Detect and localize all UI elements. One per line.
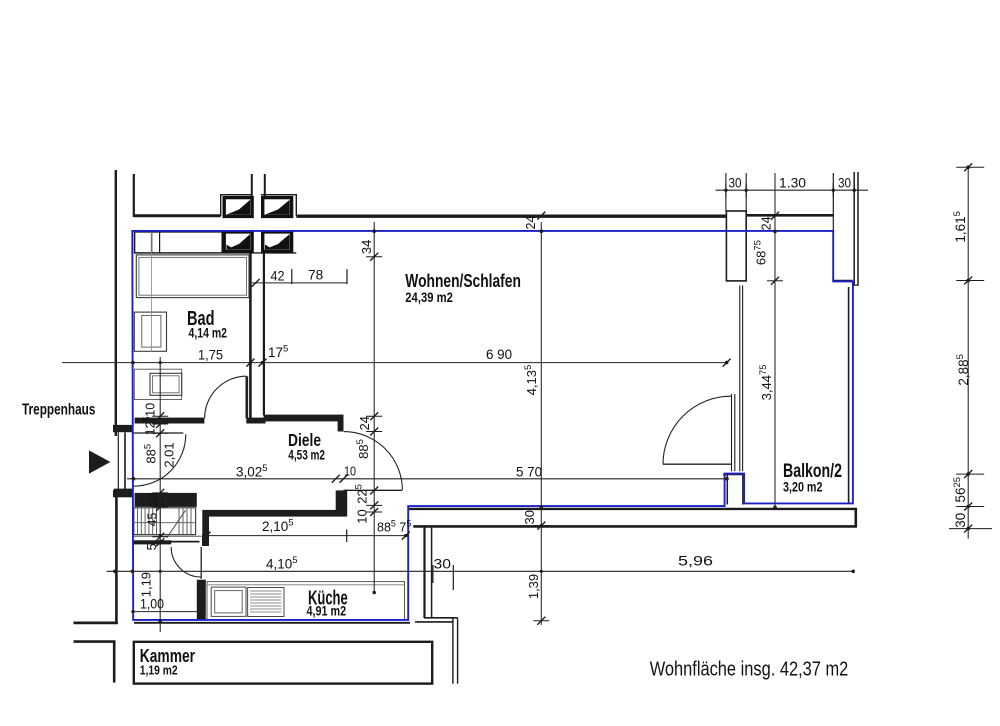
- svg-text:24: 24: [357, 416, 372, 430]
- svg-text:Treppenhaus: Treppenhaus: [22, 402, 95, 419]
- svg-text:5,96: 5,96: [678, 554, 713, 569]
- svg-text:24: 24: [524, 216, 538, 230]
- svg-text:1,75: 1,75: [198, 347, 223, 362]
- svg-text:30: 30: [434, 557, 452, 572]
- svg-text:34: 34: [359, 240, 374, 254]
- svg-text:30: 30: [838, 175, 851, 190]
- svg-text:3,20 m2: 3,20 m2: [783, 480, 823, 495]
- svg-text:Wohnfläche insg. 42,37 m2: Wohnfläche insg. 42,37 m2: [650, 659, 849, 681]
- svg-text:4,91 m2: 4,91 m2: [307, 603, 347, 618]
- svg-text:4,53 m2: 4,53 m2: [288, 448, 325, 463]
- svg-text:30: 30: [953, 513, 968, 528]
- svg-text:24: 24: [146, 492, 160, 506]
- svg-text:1.30: 1.30: [779, 175, 806, 190]
- svg-text:42: 42: [271, 269, 285, 284]
- svg-text:10: 10: [144, 403, 158, 417]
- svg-text:78: 78: [308, 267, 323, 282]
- svg-text:1,19: 1,19: [139, 572, 154, 597]
- svg-text:10: 10: [344, 464, 356, 478]
- svg-text:10: 10: [354, 509, 369, 523]
- svg-text:6 90: 6 90: [486, 347, 512, 362]
- svg-text:24: 24: [760, 216, 774, 230]
- svg-text:30: 30: [729, 175, 742, 190]
- svg-text:1,39: 1,39: [526, 574, 541, 599]
- svg-text:45: 45: [146, 513, 160, 527]
- svg-text:5 70: 5 70: [516, 465, 542, 480]
- svg-text:2,01: 2,01: [161, 442, 176, 467]
- svg-text:5: 5: [145, 543, 159, 550]
- svg-text:1,00: 1,00: [140, 597, 164, 612]
- svg-text:24,39 m2: 24,39 m2: [405, 289, 453, 305]
- svg-text:30: 30: [522, 510, 537, 524]
- svg-text:1,19 m2: 1,19 m2: [140, 664, 178, 678]
- svg-text:4,14 m2: 4,14 m2: [189, 325, 228, 340]
